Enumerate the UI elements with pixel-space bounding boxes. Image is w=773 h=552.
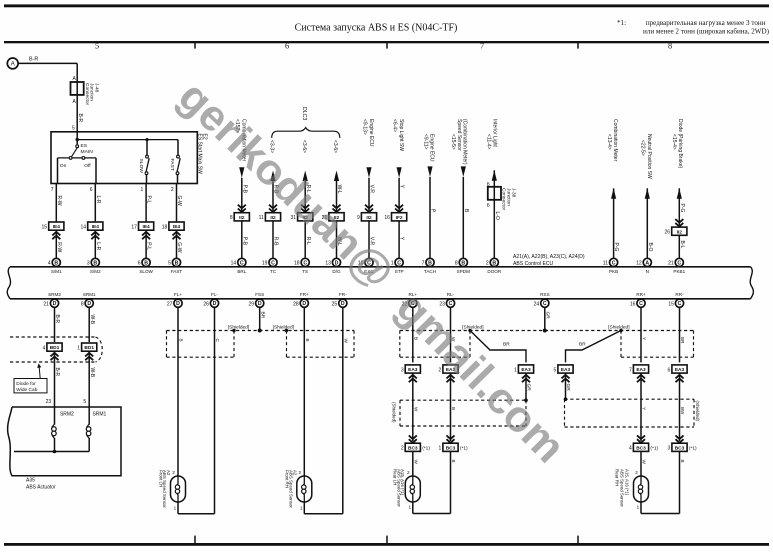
connector mate arrows IE4 FAST bbox=[173, 232, 181, 236]
svg-text:2: 2 bbox=[486, 261, 489, 267]
svg-text:DLC3: DLC3 bbox=[301, 107, 307, 120]
svg-text:B-R: B-R bbox=[54, 368, 60, 377]
connector 3 BC3 bbox=[672, 443, 687, 451]
wire S/M2 from switch bbox=[94, 184, 96, 223]
svg-text:TC: TC bbox=[270, 269, 277, 274]
svg-text:FL-: FL- bbox=[211, 292, 218, 297]
svg-text:Speed Sensor: Speed Sensor bbox=[456, 119, 462, 151]
ECU pin 14C BRL bbox=[238, 258, 246, 266]
svg-text:C: C bbox=[678, 301, 682, 307]
svg-text:C: C bbox=[677, 260, 681, 266]
svg-text:Connector: Connector bbox=[501, 188, 507, 211]
svg-text:W-L: W-L bbox=[336, 185, 342, 194]
svg-text:23: 23 bbox=[46, 399, 52, 405]
svg-text:19: 19 bbox=[262, 261, 268, 267]
connector mate arrows BC3 4 bbox=[637, 435, 645, 439]
svg-text:G-W: G-W bbox=[176, 196, 182, 207]
switch box E2 ES Start Main SW bbox=[51, 132, 197, 184]
svg-text:C: C bbox=[303, 260, 307, 266]
ECU pin 8B SPDM bbox=[459, 258, 467, 266]
svg-text:RSS: RSS bbox=[540, 292, 549, 297]
svg-text:D/G: D/G bbox=[332, 269, 341, 274]
svg-text:1: 1 bbox=[439, 446, 442, 452]
svg-text:IE4: IE4 bbox=[173, 224, 181, 230]
wire PKB bbox=[613, 188, 615, 258]
svg-text:17: 17 bbox=[131, 224, 137, 230]
svg-text:26: 26 bbox=[665, 230, 671, 236]
svg-text:SRM2: SRM2 bbox=[60, 412, 74, 418]
svg-text:7: 7 bbox=[480, 42, 484, 51]
connector mate arrows EA3 5 bbox=[562, 375, 570, 379]
ECU pin 18C TS bbox=[301, 258, 309, 266]
svg-text:7: 7 bbox=[629, 367, 632, 373]
wire right drain GR bbox=[565, 373, 567, 399]
connector mate arrows EA3 7 bbox=[637, 375, 645, 379]
svg-text:1: 1 bbox=[174, 506, 177, 511]
svg-text:2: 2 bbox=[172, 470, 175, 475]
svg-text:B: B bbox=[175, 260, 179, 266]
front-left shield box bbox=[166, 331, 168, 358]
page bottom border bbox=[4, 543, 769, 546]
svg-text:C: C bbox=[639, 301, 643, 307]
page-ref arrow PKB1 bbox=[677, 188, 682, 199]
connector mate arrows BC3 1 bbox=[447, 435, 455, 439]
wire FSS shield drain bbox=[259, 307, 261, 330]
ECU pin 11C PKB bbox=[610, 258, 618, 266]
page-ref arrow BRL bbox=[239, 167, 244, 178]
svg-text:24: 24 bbox=[534, 302, 540, 308]
svg-text:C: C bbox=[543, 301, 547, 307]
svg-text:P-L: P-L bbox=[146, 242, 152, 250]
page-ref arrow TS bbox=[303, 171, 308, 182]
svg-text:B: B bbox=[144, 260, 148, 266]
wire TC lower bbox=[272, 221, 274, 258]
wire left drain GR bbox=[525, 373, 527, 400]
svg-text:IE4: IE4 bbox=[142, 224, 150, 230]
svg-text:SRM1: SRM1 bbox=[92, 412, 106, 418]
svg-text:RL-: RL- bbox=[447, 292, 455, 297]
svg-text:TACH: TACH bbox=[424, 269, 436, 274]
connector 21 II2 (D/G) bbox=[329, 213, 344, 221]
svg-text:EA3: EA3 bbox=[521, 367, 531, 373]
svg-text:BC3: BC3 bbox=[675, 445, 685, 451]
connector mate arrows BD1 SRM2 bbox=[51, 353, 59, 357]
svg-text:5: 5 bbox=[83, 399, 86, 405]
svg-text:BRL: BRL bbox=[237, 269, 246, 274]
svg-text:ES: ES bbox=[81, 143, 88, 149]
connector 15 IE4 (S/M1) bbox=[49, 222, 64, 230]
ABS actuator box bbox=[8, 407, 121, 476]
svg-text:11: 11 bbox=[259, 215, 264, 221]
svg-text:4: 4 bbox=[48, 261, 51, 267]
rear-right shield box 2 bbox=[565, 398, 695, 400]
connector 3 EA3 bbox=[405, 365, 420, 373]
svg-text:TS: TS bbox=[302, 269, 308, 274]
svg-text:EA3: EA3 bbox=[408, 367, 418, 373]
connector mate arrows BD1 SRM1 bbox=[85, 353, 93, 357]
svg-text:IE4: IE4 bbox=[53, 224, 61, 230]
connector mate arrows IE4 SLOW bbox=[142, 232, 150, 236]
svg-text:15: 15 bbox=[668, 302, 674, 308]
connector mate arrows BC3 2 bbox=[409, 435, 417, 439]
connector mate arrows IE4 S/M2 bbox=[91, 232, 99, 236]
connector mate arrows II2 TS bbox=[301, 205, 309, 209]
wire switch feed bus bbox=[77, 139, 178, 141]
svg-text:<9-13>: <9-13> bbox=[361, 119, 367, 135]
wire TC upper bbox=[272, 181, 274, 213]
svg-text:или менее 2 тонн (широкая каби: или менее 2 тонн (широкая кабина, 2WD) bbox=[643, 27, 770, 35]
connector 1 EA3 bbox=[518, 365, 533, 373]
svg-text:S/M2: S/M2 bbox=[90, 269, 101, 274]
svg-text:2: 2 bbox=[171, 187, 174, 193]
wire RL+ mid bbox=[412, 373, 414, 441]
svg-text:BC3: BC3 bbox=[636, 445, 646, 451]
svg-text:B: B bbox=[461, 260, 465, 266]
wire PKB1 lower bbox=[678, 235, 680, 258]
svg-text:3: 3 bbox=[668, 446, 671, 452]
svg-text:IE4: IE4 bbox=[92, 224, 100, 230]
svg-text:4: 4 bbox=[629, 446, 632, 452]
svg-text:5: 5 bbox=[168, 261, 171, 267]
svg-text:(*1): (*1) bbox=[689, 446, 697, 452]
svg-text:P-L: P-L bbox=[146, 196, 152, 204]
svg-text:L-R: L-R bbox=[95, 196, 101, 204]
svg-text:FR+: FR+ bbox=[300, 292, 309, 297]
svg-text:S/M1: S/M1 bbox=[51, 269, 62, 274]
wire On leg bbox=[57, 158, 59, 184]
svg-text:[Shielded]: [Shielded] bbox=[228, 325, 249, 331]
svg-text:16: 16 bbox=[630, 302, 636, 308]
svg-text:12: 12 bbox=[636, 261, 642, 267]
connector 18 IE4 (FAST) bbox=[169, 222, 184, 230]
svg-text:8: 8 bbox=[81, 302, 84, 308]
svg-text:28: 28 bbox=[293, 302, 299, 308]
ECU pin 13D D/G bbox=[332, 258, 340, 266]
svg-text:8: 8 bbox=[455, 261, 458, 267]
svg-text:29: 29 bbox=[249, 302, 255, 308]
svg-text:BR: BR bbox=[680, 337, 685, 344]
svg-text:MAIN: MAIN bbox=[81, 149, 94, 155]
svg-text:Interior Light: Interior Light bbox=[492, 119, 498, 147]
connector mate arrows II2 EXC bbox=[365, 205, 373, 209]
svg-text:15: 15 bbox=[42, 224, 48, 230]
wire SPDM bbox=[462, 177, 464, 258]
svg-text:C: C bbox=[215, 339, 220, 343]
svg-text:Front LH: Front LH bbox=[158, 470, 163, 487]
page top border bbox=[4, 4, 769, 7]
wire STP upper bbox=[398, 178, 400, 213]
connector 31 II2 (TS) bbox=[298, 213, 313, 221]
svg-text:B-R: B-R bbox=[77, 114, 83, 123]
node ES MAIN bbox=[76, 132, 78, 145]
svg-text:L-R: L-R bbox=[95, 242, 101, 250]
svg-text:FAST: FAST bbox=[171, 269, 183, 274]
connector 9 II2 (EXC) bbox=[361, 213, 376, 221]
connector 1 BD1 (SRM1) bbox=[82, 343, 97, 351]
wire FAST to ECU pin bbox=[176, 230, 178, 258]
svg-text:IF2: IF2 bbox=[396, 215, 403, 221]
svg-text:C: C bbox=[271, 260, 275, 266]
wire SLOW to ECU pin bbox=[145, 230, 147, 258]
svg-text:W: W bbox=[413, 460, 418, 465]
ECU block torn left edge bbox=[7, 267, 10, 299]
svg-text:<15-5>: <15-5> bbox=[450, 134, 456, 150]
page-ref arrow TACH bbox=[427, 166, 432, 177]
svg-text:W-B: W-B bbox=[89, 368, 95, 378]
svg-text:Система запуска ABS и ES (N04C: Система запуска ABS и ES (N04C-TF) bbox=[295, 22, 458, 33]
ECU pin 3B S/M2 bbox=[91, 258, 99, 266]
svg-text:BR: BR bbox=[259, 312, 265, 319]
svg-text:R-W: R-W bbox=[56, 196, 62, 206]
svg-text:B: B bbox=[305, 339, 310, 342]
svg-text:14: 14 bbox=[231, 261, 237, 267]
page-ref arrow DOOR bbox=[492, 170, 497, 181]
svg-text:Front RH: Front RH bbox=[285, 470, 290, 488]
svg-text:ABS Control ECU: ABS Control ECU bbox=[513, 261, 554, 267]
svg-text:7: 7 bbox=[422, 261, 425, 267]
rear-left shield box bbox=[399, 331, 401, 358]
svg-text:[Shielded]: [Shielded] bbox=[273, 325, 294, 331]
page-ref arrow N bbox=[645, 188, 650, 199]
wire TS lower bbox=[304, 221, 306, 258]
ECU pin 2B DOOR bbox=[490, 258, 498, 266]
svg-text:On: On bbox=[60, 163, 67, 169]
svg-text:D: D bbox=[87, 301, 91, 307]
svg-text:II2: II2 bbox=[677, 229, 683, 235]
ABS Control ECU block bbox=[10, 266, 751, 268]
connector mate arrows EA3 1 bbox=[522, 375, 530, 379]
wire EXC upper bbox=[368, 178, 370, 213]
svg-text:Rear RH: Rear RH bbox=[614, 469, 619, 486]
connector 26 II2 (PKB1) bbox=[672, 227, 687, 235]
svg-text:Diode (Parking Brake): Diode (Parking Brake) bbox=[677, 119, 683, 169]
page-ref arrow TC bbox=[270, 171, 275, 182]
wire DOOR lower bbox=[493, 200, 495, 258]
svg-text:(Shielded): (Shielded) bbox=[695, 401, 700, 422]
svg-text:D: D bbox=[53, 301, 57, 307]
svg-text:Stop Light SW: Stop Light SW bbox=[398, 119, 404, 151]
connector 8 II2 (BRL) bbox=[234, 213, 249, 221]
svg-text:P-B: P-B bbox=[241, 237, 247, 246]
connector 4 BC3 bbox=[633, 443, 648, 451]
connector 17 IE4 (SLOW) bbox=[139, 222, 154, 230]
callout Diode for Wide Cab bbox=[14, 379, 47, 393]
top rule bbox=[4, 41, 769, 43]
ECU pin 10C EXC bbox=[365, 258, 373, 266]
svg-text:B: B bbox=[451, 460, 456, 463]
solenoid SRM1 bbox=[88, 407, 90, 425]
svg-text:D: D bbox=[213, 301, 217, 307]
svg-text:5: 5 bbox=[95, 42, 99, 51]
svg-text:B: B bbox=[93, 260, 97, 266]
svg-text:II2: II2 bbox=[239, 215, 245, 221]
connector 16 IF2 (STP) bbox=[392, 213, 407, 221]
svg-text:B: B bbox=[428, 260, 432, 266]
svg-text:1: 1 bbox=[300, 506, 303, 511]
rear-left shield box 2 bbox=[400, 399, 526, 401]
svg-text:A21(A), A22(B), A23(C), A24(D): A21(A), A22(B), A23(C), A24(D) bbox=[513, 254, 585, 260]
wire RR+ upper bbox=[640, 307, 642, 362]
wire rear RH sensor return bbox=[640, 502, 642, 514]
connector mate arrows EA3 3 bbox=[409, 375, 417, 379]
svg-text:8: 8 bbox=[230, 215, 233, 221]
wire S/M1 from switch bbox=[55, 184, 57, 223]
page-ref arrow D/G bbox=[334, 171, 339, 182]
svg-text:2: 2 bbox=[635, 470, 638, 475]
svg-text:P-G: P-G bbox=[613, 243, 619, 252]
connector mate arrows IE4 S/M1 bbox=[52, 232, 60, 236]
svg-text:(*1): (*1) bbox=[422, 446, 430, 452]
connector 2 EA3 bbox=[443, 365, 458, 373]
svg-text:<13-4>: <13-4> bbox=[606, 134, 612, 150]
svg-text:27: 27 bbox=[167, 302, 173, 308]
svg-text:<3-6>: <3-6> bbox=[332, 140, 338, 153]
ECU pin 12A N bbox=[643, 258, 651, 266]
wire FL+ bbox=[177, 307, 179, 476]
svg-text:(Shielded): (Shielded) bbox=[392, 402, 397, 423]
front shield dashed line bbox=[167, 330, 355, 332]
wire RR- upper bbox=[679, 307, 681, 362]
svg-text:P-B: P-B bbox=[241, 185, 247, 194]
svg-text:Off: Off bbox=[84, 163, 91, 169]
svg-text:<3-6>: <3-6> bbox=[301, 140, 307, 153]
svg-text:1: 1 bbox=[408, 505, 411, 510]
front-right shield box bbox=[286, 331, 288, 358]
svg-text:C: C bbox=[449, 301, 453, 307]
svg-text:BD1: BD1 bbox=[50, 345, 60, 351]
svg-text:SPDM: SPDM bbox=[457, 269, 470, 274]
wire FL- bbox=[214, 307, 216, 514]
svg-text:A: A bbox=[645, 260, 649, 266]
svg-text:ES Start Main SW: ES Start Main SW bbox=[197, 134, 203, 175]
ECU pin 7B TACH bbox=[426, 258, 434, 266]
rear shield dashed line bbox=[400, 330, 694, 332]
svg-text:B: B bbox=[492, 260, 496, 266]
wire RL- lower bbox=[450, 451, 452, 513]
svg-text:B: B bbox=[680, 460, 685, 463]
svg-text:B-R: B-R bbox=[54, 315, 60, 324]
svg-text:Engine ECU: Engine ECU bbox=[428, 134, 434, 162]
wire D/G upper bbox=[336, 181, 338, 213]
ECU pin 6B SLOW bbox=[142, 258, 150, 266]
svg-text:1: 1 bbox=[141, 187, 144, 193]
wire N bbox=[646, 188, 648, 258]
wire RR+ lower bbox=[640, 451, 642, 476]
connector 7 EA3 bbox=[633, 365, 648, 373]
svg-text:B-R: B-R bbox=[29, 57, 38, 63]
svg-text:EA3: EA3 bbox=[636, 367, 646, 373]
svg-text:GR: GR bbox=[565, 384, 571, 392]
svg-text:SRM2: SRM2 bbox=[48, 292, 61, 297]
wire RL+ lower bbox=[412, 451, 414, 476]
connector 5 EA3 bbox=[558, 365, 573, 373]
page-ref arrow SPDM bbox=[461, 166, 466, 177]
wire B-R to ES switch bbox=[76, 95, 78, 132]
ECU pin 19C TC bbox=[269, 258, 277, 266]
switch SLOW bbox=[146, 140, 148, 156]
svg-text:P-G: P-G bbox=[679, 204, 685, 213]
svg-text:5: 5 bbox=[554, 367, 557, 373]
wire S/M1 to ECU pin bbox=[55, 230, 57, 258]
svg-text:FR-: FR- bbox=[339, 292, 347, 297]
svg-text:<11-4>: <11-4> bbox=[485, 134, 491, 150]
svg-text:BC3: BC3 bbox=[408, 445, 418, 451]
ECU block torn right edge bbox=[750, 267, 753, 299]
svg-text:L-O: L-O bbox=[494, 212, 500, 220]
connector 1 BC3 bbox=[443, 443, 458, 451]
connector mate arrows EA3 6 bbox=[676, 375, 684, 379]
svg-text:Y: Y bbox=[642, 407, 647, 410]
svg-text:B: B bbox=[487, 203, 490, 208]
connector 14 IE4 (S/M2) bbox=[88, 222, 103, 230]
svg-text:RR+: RR+ bbox=[636, 292, 646, 297]
svg-text:B: B bbox=[54, 260, 58, 266]
svg-text:Neutral Position SW: Neutral Position SW bbox=[646, 134, 652, 179]
svg-text:18: 18 bbox=[162, 224, 168, 230]
wire right shield to EA3 bbox=[566, 331, 622, 363]
svg-text:SLOW: SLOW bbox=[138, 159, 144, 174]
wire SRM1 lower bbox=[88, 351, 90, 406]
wire left shield to EA3 bbox=[470, 331, 526, 363]
svg-text:3: 3 bbox=[401, 367, 404, 373]
column ticks top bbox=[194, 43, 196, 49]
wire BRL upper bbox=[241, 178, 243, 213]
svg-text:<22-5>: <22-5> bbox=[640, 140, 646, 156]
wire B-R from A bbox=[18, 62, 77, 64]
svg-text:W: W bbox=[413, 407, 418, 412]
svg-text:W: W bbox=[642, 460, 647, 465]
wire FAST from switch bbox=[176, 184, 178, 223]
svg-text:2: 2 bbox=[407, 470, 410, 475]
wire EXC lower bbox=[368, 221, 370, 258]
wire SRM2 lower bbox=[54, 351, 56, 406]
wire RR- mid bbox=[679, 373, 681, 441]
svg-text:25: 25 bbox=[332, 302, 338, 308]
svg-text:<15-4>: <15-4> bbox=[671, 134, 677, 150]
svg-text:B: B bbox=[179, 339, 184, 342]
wire SRM1 upper bbox=[88, 307, 90, 342]
svg-text:1: 1 bbox=[514, 367, 517, 373]
wire PKB1 upper bbox=[678, 188, 680, 227]
ECU pin 5B FAST bbox=[172, 258, 180, 266]
svg-text:Combination Meter: Combination Meter bbox=[612, 119, 618, 162]
svg-text:BR: BR bbox=[579, 342, 586, 348]
svg-text:<9-11>: <9-11> bbox=[423, 134, 429, 150]
wire RL+ upper bbox=[412, 307, 414, 362]
svg-text:A: A bbox=[11, 62, 15, 68]
svg-text:B: B bbox=[451, 407, 456, 410]
connector mate arrows II2 D/G bbox=[333, 205, 341, 209]
speed sensor A15 A16 rear LH bbox=[405, 476, 420, 502]
svg-text:C: C bbox=[240, 260, 244, 266]
wire Off leg bbox=[95, 158, 97, 184]
connector 2 BC3 bbox=[405, 443, 420, 451]
svg-text:B-O: B-O bbox=[647, 243, 653, 252]
svg-text:5: 5 bbox=[72, 126, 75, 132]
svg-text:18: 18 bbox=[294, 261, 300, 267]
svg-text:4: 4 bbox=[43, 345, 46, 351]
svg-text:RR-: RR- bbox=[675, 292, 684, 297]
ECU pin 21C PKB1 bbox=[675, 258, 683, 266]
svg-text:<6-4>: <6-4> bbox=[392, 119, 398, 132]
wire RR+ mid bbox=[640, 373, 642, 441]
svg-text:6: 6 bbox=[668, 367, 671, 373]
svg-text:(Combination Meter): (Combination Meter) bbox=[462, 119, 468, 165]
svg-text:FAST: FAST bbox=[169, 159, 175, 171]
svg-text:GR: GR bbox=[544, 312, 550, 320]
svg-text:(*1): (*1) bbox=[650, 446, 658, 452]
svg-text:FL+: FL+ bbox=[174, 292, 182, 297]
